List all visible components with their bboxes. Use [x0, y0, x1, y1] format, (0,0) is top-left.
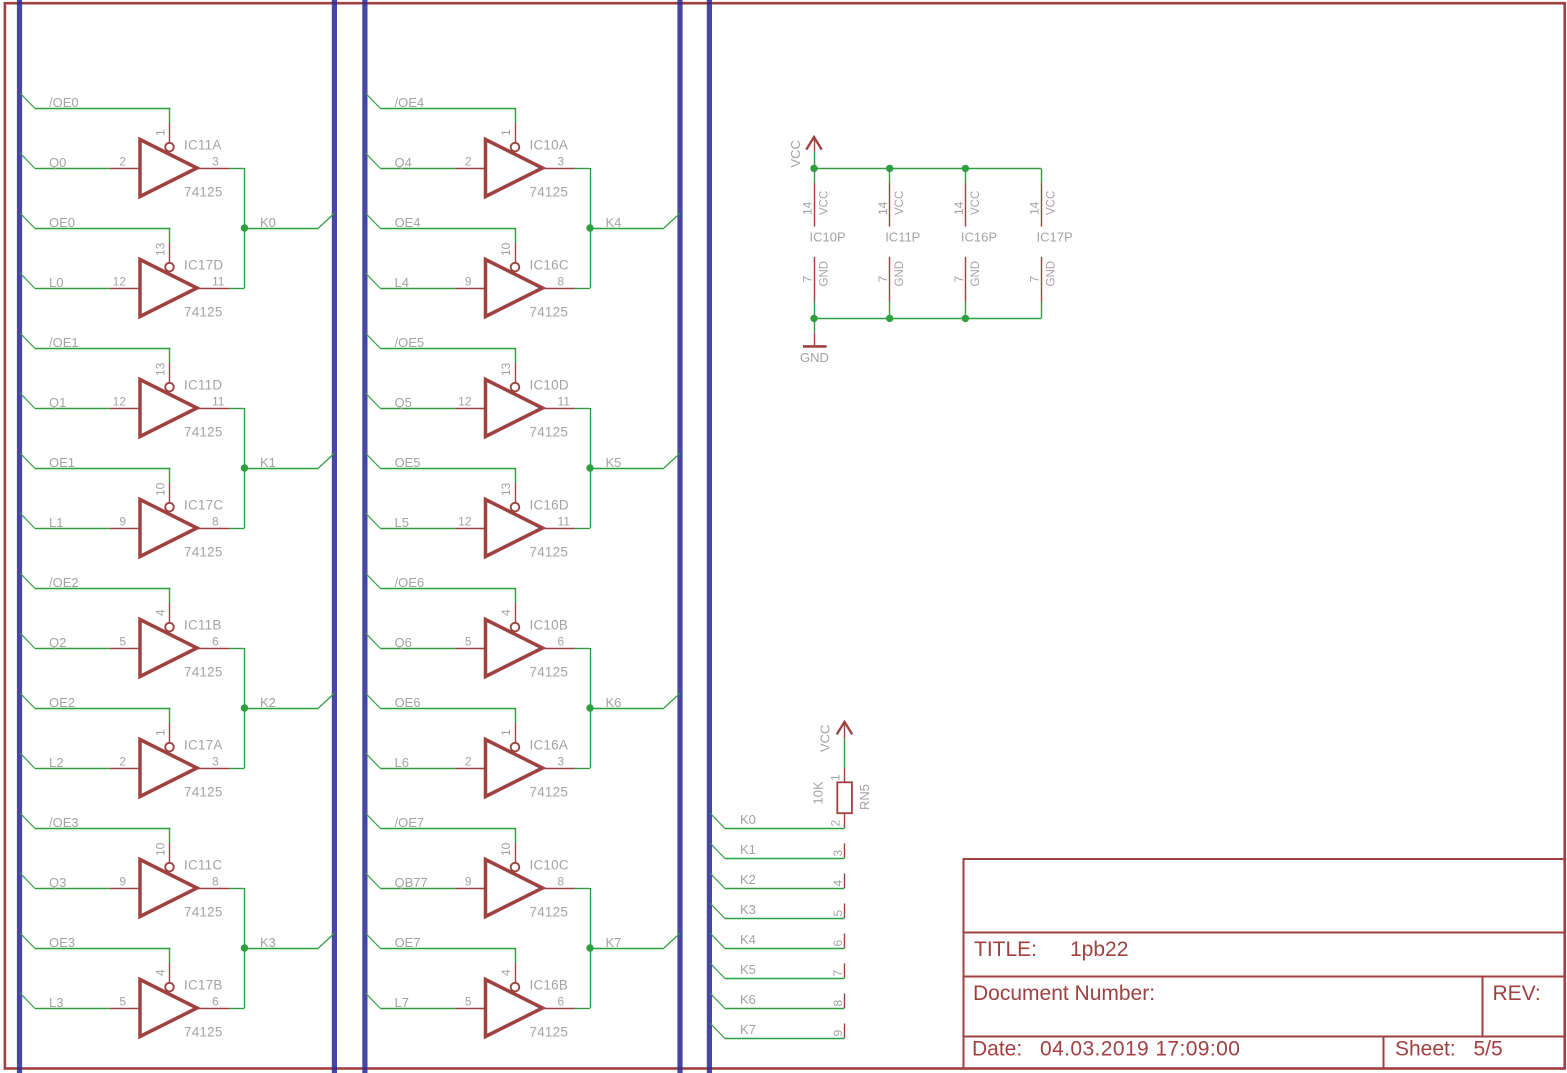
net label K7	[606, 935, 622, 950]
svg-text:7: 7	[1028, 276, 1042, 283]
junction K3	[241, 944, 248, 951]
name label IC16B	[530, 978, 569, 993]
svg-text:10: 10	[499, 242, 513, 256]
wire VCC rail	[814, 168, 1042, 183]
pin number 9 (input) of IC11C	[119, 875, 126, 889]
wire GND rail	[814, 302, 1042, 319]
svg-text:VCC: VCC	[970, 191, 982, 215]
wire net Q3 (input of IC11C)	[20, 873, 110, 889]
svg-text:5: 5	[119, 995, 126, 1009]
svg-text:2: 2	[829, 820, 843, 827]
pin number 8 (output) of IC17C	[212, 515, 219, 529]
net label OE5	[395, 455, 421, 470]
net label Q4	[395, 155, 412, 170]
svg-text:9: 9	[465, 275, 472, 289]
net label /OE7	[395, 815, 425, 830]
svg-text:IC17B: IC17B	[184, 978, 223, 993]
svg-text:K3: K3	[260, 935, 276, 950]
name label IC17A	[184, 738, 223, 753]
wire net /OE7 (enable of IC10C)	[365, 813, 516, 843]
pin number 7 (GND) of IC10P	[801, 276, 815, 283]
net label K2 (RN5 row)	[740, 872, 756, 887]
net label K6 (RN5 row)	[740, 992, 756, 1007]
net label L5	[395, 515, 409, 530]
svg-text:L6: L6	[395, 755, 409, 770]
buffer IC16C (74125 tri-state)	[455, 243, 574, 317]
svg-text:VCC: VCC	[1046, 191, 1058, 215]
wire net K0 (outputs join)	[229, 168, 335, 289]
svg-text:IC17C: IC17C	[184, 498, 223, 513]
svg-text:74125: 74125	[530, 905, 569, 920]
svg-text:6: 6	[212, 995, 219, 1009]
svg-text:9: 9	[119, 515, 126, 529]
svg-text:IC10A: IC10A	[530, 138, 569, 153]
pin number 12 (input) of IC16D	[458, 515, 472, 529]
value label 74125 of IC16A	[530, 785, 569, 800]
pin number 4 (enable) of IC10B	[499, 609, 513, 616]
net label Q3	[49, 875, 66, 890]
wire net L1 (input of IC17C)	[20, 513, 110, 529]
svg-text:6: 6	[831, 940, 845, 947]
bus line 4	[677, 0, 682, 1073]
pin number 5 (input) of IC16B	[465, 995, 472, 1009]
pin number 14 (VCC) of IC11P	[876, 201, 890, 215]
value label 74125 of IC11D	[184, 425, 223, 440]
net label L6	[395, 755, 409, 770]
svg-text:Sheet:: Sheet:	[1395, 1038, 1456, 1061]
pin number 2 (input) of IC10A	[465, 155, 472, 169]
value label 74125 of IC11C	[184, 905, 223, 920]
pin number 3 (output) of IC11A	[212, 155, 219, 169]
svg-text:K4: K4	[606, 215, 622, 230]
net label VCC (power rail)	[788, 140, 803, 167]
wire net OE5 (enable of IC16D)	[365, 453, 516, 483]
wire net OE7 (enable of IC16B)	[365, 933, 516, 963]
buffer IC17B (74125 tri-state)	[110, 963, 229, 1037]
name label IC16D	[530, 498, 569, 513]
svg-text:13: 13	[153, 242, 167, 256]
svg-text:IC10P: IC10P	[810, 229, 846, 244]
pin number 2 (input) of IC17A	[119, 755, 126, 769]
svg-text:L7: L7	[395, 995, 409, 1010]
net label GND	[800, 350, 829, 365]
wire net K3 (outputs join)	[229, 888, 335, 1009]
svg-text:K1: K1	[740, 842, 756, 857]
svg-text:/OE7: /OE7	[395, 815, 425, 830]
svg-text:4: 4	[499, 969, 513, 976]
svg-text:8: 8	[212, 515, 219, 529]
pin number 6 of RN5	[831, 940, 845, 947]
net label Q6	[395, 635, 412, 650]
pin number 13 (enable) of IC10D	[499, 362, 513, 376]
svg-text:74125: 74125	[184, 665, 223, 680]
pin number 3 (output) of IC16A	[558, 755, 565, 769]
wire net /OE0 (enable of IC11A)	[20, 93, 170, 123]
wire net OE3 (enable of IC17B)	[20, 933, 170, 963]
svg-text:Q0: Q0	[49, 155, 66, 170]
svg-text:IC16C: IC16C	[530, 258, 569, 273]
pin number 1 (enable) of IC17A	[153, 729, 167, 736]
svg-text:74125: 74125	[184, 785, 223, 800]
value label 74125 of IC17C	[184, 545, 223, 560]
svg-text:L1: L1	[49, 515, 63, 530]
wire net OE2 (enable of IC17A)	[20, 693, 170, 723]
svg-text:6: 6	[212, 635, 219, 649]
svg-text:3: 3	[558, 155, 565, 169]
wire net OE0 (enable of IC17D)	[20, 213, 170, 243]
wire net K0 (to RN5)	[710, 813, 845, 829]
svg-text:L5: L5	[395, 515, 409, 530]
net label /OE5	[395, 335, 425, 350]
svg-text:10K: 10K	[811, 781, 826, 804]
svg-text:Document Number:: Document Number:	[973, 982, 1155, 1005]
svg-text:14: 14	[1028, 201, 1042, 215]
buffer IC10B (74125 tri-state)	[455, 603, 574, 677]
net label K1 (RN5 row)	[740, 842, 756, 857]
pin number 8 (output) of IC11C	[212, 875, 219, 889]
name label IC17C	[184, 498, 223, 513]
pin number 5 of RN5	[831, 910, 845, 917]
buffer IC11B (74125 tri-state)	[110, 603, 229, 677]
pin stub 5 of RN5	[844, 904, 846, 919]
svg-text:74125: 74125	[530, 305, 569, 320]
value label 74125 of IC11A	[184, 185, 223, 200]
svg-text:Date:: Date:	[972, 1038, 1022, 1061]
net label K3	[260, 935, 276, 950]
value label 74125 of IC16C	[530, 305, 569, 320]
value label 74125 of IC17A	[184, 785, 223, 800]
pin number 5 (input) of IC10B	[465, 635, 472, 649]
value label 74125 of IC16B	[530, 1025, 569, 1040]
svg-text:14: 14	[952, 201, 966, 215]
svg-text:L4: L4	[395, 275, 409, 290]
svg-text:REV:: REV:	[1493, 982, 1541, 1005]
svg-text:1: 1	[829, 774, 843, 781]
pin stub 3 of RN5	[844, 844, 846, 859]
pin number 3 of RN5	[831, 850, 845, 857]
svg-text:10: 10	[153, 842, 167, 856]
pin number 6 (output) of IC17B	[212, 995, 219, 1009]
net label K4 (RN5 row)	[740, 932, 756, 947]
svg-text:5: 5	[465, 635, 472, 649]
name label IC11A	[184, 138, 222, 153]
junction K4	[586, 224, 593, 231]
svg-text:11: 11	[558, 395, 571, 409]
svg-text:74125: 74125	[184, 185, 223, 200]
pin number 12 (input) of IC10D	[458, 395, 472, 409]
wire net L7 (input of IC16B)	[365, 993, 455, 1009]
pin stub 8 of RN5	[844, 994, 846, 1009]
net label /OE1	[49, 335, 79, 350]
name label IC10C	[530, 858, 569, 873]
svg-text:2: 2	[119, 155, 126, 169]
svg-text:Q1: Q1	[49, 395, 66, 410]
wire net K5 (to RN5)	[710, 963, 845, 979]
svg-text:K6: K6	[740, 992, 756, 1007]
svg-text:2: 2	[465, 755, 472, 769]
pin name GND of IC10P	[819, 261, 831, 287]
svg-text:5/5: 5/5	[1474, 1038, 1503, 1061]
pin number 9 of RN5	[831, 1030, 845, 1037]
svg-text:Q3: Q3	[49, 875, 66, 890]
svg-text:GND: GND	[819, 261, 831, 287]
resistor network RN5	[837, 768, 852, 828]
name label IC17B	[184, 978, 223, 993]
pin number 13 (enable) of IC16D	[499, 482, 513, 496]
net label L2	[49, 755, 63, 770]
buffer IC11A (74125 tri-state)	[110, 123, 229, 197]
svg-text:IC10D: IC10D	[530, 378, 569, 393]
pin number 8 of RN5	[831, 1000, 845, 1007]
pin number 11 (output) of IC17D	[212, 275, 225, 289]
net label L3	[49, 995, 63, 1010]
pin name GND of IC11P	[894, 261, 906, 287]
net label K0 (RN5 row)	[740, 812, 756, 827]
svg-text:Q4: Q4	[395, 155, 412, 170]
pin number 12 (input) of IC11D	[113, 395, 127, 409]
svg-text:4: 4	[831, 880, 845, 887]
pin name VCC of IC10P	[819, 191, 831, 215]
buffer IC10D (74125 tri-state)	[455, 363, 574, 437]
svg-text:GND: GND	[1046, 261, 1058, 287]
svg-text:K3: K3	[740, 902, 756, 917]
svg-text:5: 5	[465, 995, 472, 1009]
svg-text:6: 6	[558, 635, 565, 649]
buffer IC17D (74125 tri-state)	[110, 243, 229, 317]
svg-text:04.03.2019 17:09:00: 04.03.2019 17:09:00	[1040, 1038, 1240, 1061]
net label L0	[49, 275, 63, 290]
buffer IC17A (74125 tri-state)	[110, 723, 229, 797]
pin number 1 (enable) of IC10A	[499, 129, 513, 136]
net label K7 (RN5 row)	[740, 1022, 756, 1037]
svg-text:14: 14	[801, 201, 815, 215]
value label 74125 of IC11B	[184, 665, 223, 680]
name label IC16A	[530, 738, 569, 753]
svg-text:K4: K4	[740, 932, 756, 947]
pin number 7 (GND) of IC11P	[876, 276, 890, 283]
pin number 6 (output) of IC11B	[212, 635, 219, 649]
net label VCC (RN5)	[818, 725, 833, 752]
name label IC10D	[530, 378, 569, 393]
junction K7	[586, 944, 593, 951]
wire net K6 (outputs join)	[575, 648, 681, 769]
junction VCC rail	[810, 165, 817, 172]
svg-text:4: 4	[499, 609, 513, 616]
pin number 13 (enable) of IC17D	[153, 242, 167, 256]
net label L4	[395, 275, 409, 290]
wire net K6 (to RN5)	[710, 993, 845, 1009]
svg-text:OE6: OE6	[395, 695, 421, 710]
net label Q1	[49, 395, 66, 410]
pin name GND of IC16P	[970, 261, 982, 287]
pin number 12 (input) of IC17D	[113, 275, 127, 289]
wire net K5 (outputs join)	[575, 408, 681, 529]
svg-text:4: 4	[153, 969, 167, 976]
net label Q0	[49, 155, 66, 170]
svg-text:K0: K0	[260, 215, 276, 230]
buffer IC10A (74125 tri-state)	[455, 123, 574, 197]
power gate IC16P	[965, 168, 967, 318]
svg-text:3: 3	[212, 755, 219, 769]
svg-text:74125: 74125	[530, 665, 569, 680]
svg-text:IC17D: IC17D	[184, 258, 223, 273]
net label K2	[260, 695, 276, 710]
svg-text:IC10C: IC10C	[530, 858, 569, 873]
value label 10K of RN5	[811, 781, 826, 804]
svg-text:8: 8	[558, 875, 565, 889]
net label /OE2	[49, 575, 79, 590]
svg-text:GND: GND	[970, 261, 982, 287]
svg-text:10: 10	[499, 842, 513, 856]
svg-text:5: 5	[831, 910, 845, 917]
svg-text:74125: 74125	[530, 185, 569, 200]
wire net QB77 (input of IC10C)	[365, 873, 455, 889]
svg-text:IC16B: IC16B	[530, 978, 569, 993]
name label IC17D	[184, 258, 223, 273]
buffer IC17C (74125 tri-state)	[110, 483, 229, 557]
svg-text:74125: 74125	[184, 305, 223, 320]
svg-text:13: 13	[153, 362, 167, 376]
buffer IC16A (74125 tri-state)	[455, 723, 574, 797]
wire net L6 (input of IC16A)	[365, 753, 455, 769]
net label K3 (RN5 row)	[740, 902, 756, 917]
junction GND rail	[962, 315, 969, 322]
pin number 4 (enable) of IC11B	[153, 609, 167, 616]
pin number 4 of RN5	[831, 880, 845, 887]
junction VCC rail	[962, 165, 969, 172]
svg-text:7: 7	[831, 970, 845, 977]
net label Q5	[395, 395, 412, 410]
power gate IC11P	[889, 168, 891, 318]
svg-text:K5: K5	[740, 962, 756, 977]
net label OE3	[49, 935, 75, 950]
pin number 10 (enable) of IC11C	[153, 842, 167, 856]
svg-text:7: 7	[876, 276, 890, 283]
wire net OE4 (enable of IC16C)	[365, 213, 516, 243]
svg-text:K7: K7	[740, 1022, 756, 1037]
svg-text:Q2: Q2	[49, 635, 66, 650]
power gate IC10P	[814, 168, 816, 318]
pin number 2 (input) of IC11A	[119, 155, 126, 169]
svg-text:9: 9	[465, 875, 472, 889]
svg-text:11: 11	[212, 275, 225, 289]
value label 74125 of IC17B	[184, 1025, 223, 1040]
svg-text:7: 7	[952, 276, 966, 283]
svg-text:K1: K1	[260, 455, 276, 470]
svg-text:IC16P: IC16P	[961, 229, 997, 244]
wire net K4 (to RN5)	[710, 933, 845, 949]
power gate IC17P	[1041, 183, 1043, 302]
svg-text:TITLE:: TITLE:	[974, 938, 1037, 961]
wire net Q1 (input of IC11D)	[20, 393, 110, 409]
pin number 7 (GND) of IC17P	[1028, 276, 1042, 283]
svg-text:OE5: OE5	[395, 455, 421, 470]
junction GND rail	[810, 315, 817, 322]
name label IC11C	[184, 858, 222, 873]
svg-text:/OE4: /OE4	[395, 95, 425, 110]
pin number 9 (input) of IC17C	[119, 515, 126, 529]
svg-text:IC11C: IC11C	[184, 858, 222, 873]
buffer IC16D (74125 tri-state)	[455, 483, 574, 557]
net label L7	[395, 995, 409, 1010]
svg-text:6: 6	[558, 995, 565, 1009]
svg-text:1: 1	[499, 129, 513, 136]
net label K5 (RN5 row)	[740, 962, 756, 977]
net label /OE4	[395, 95, 425, 110]
pin number 1 (enable) of IC16A	[499, 729, 513, 736]
name label IC10P	[810, 229, 846, 244]
pin number 2 (input) of IC16A	[465, 755, 472, 769]
svg-text:VCC: VCC	[894, 191, 906, 215]
bus line 2	[332, 0, 337, 1073]
buffer IC11D (74125 tri-state)	[110, 363, 229, 437]
svg-text:K5: K5	[606, 455, 622, 470]
svg-text:12: 12	[458, 515, 472, 529]
buffer IC16B (74125 tri-state)	[455, 963, 574, 1037]
svg-text:1pb22: 1pb22	[1070, 938, 1128, 961]
wire net /OE1 (enable of IC11D)	[20, 333, 170, 363]
net label QB77	[395, 875, 428, 890]
svg-text:Q6: Q6	[395, 635, 412, 650]
buffer IC10C (74125 tri-state)	[455, 843, 574, 917]
svg-text:K0: K0	[740, 812, 756, 827]
junction GND rail	[886, 315, 893, 322]
svg-text:/OE0: /OE0	[49, 95, 79, 110]
svg-text:VCC: VCC	[819, 191, 831, 215]
svg-text:L2: L2	[49, 755, 63, 770]
pin name VCC of IC11P	[894, 191, 906, 215]
svg-text:12: 12	[113, 395, 127, 409]
svg-text:8: 8	[212, 875, 219, 889]
wire net Q4 (input of IC10A)	[365, 153, 455, 169]
wire net K7 (outputs join)	[575, 888, 681, 1009]
pin number 3 (output) of IC17A	[212, 755, 219, 769]
junction K1	[241, 464, 248, 471]
net label OE6	[395, 695, 421, 710]
svg-text:74125: 74125	[530, 425, 569, 440]
name label RN5	[857, 784, 872, 810]
wire net K3 (to RN5)	[710, 903, 845, 919]
pin number 10 (enable) of IC17C	[153, 482, 167, 496]
svg-text:3: 3	[831, 850, 845, 857]
svg-text:IC17P: IC17P	[1037, 229, 1073, 244]
net label K6	[606, 695, 622, 710]
wire VCC to RN5 pin 1	[844, 739, 846, 768]
svg-text:IC11B: IC11B	[184, 618, 222, 633]
svg-text:IC17A: IC17A	[184, 738, 223, 753]
svg-text:1: 1	[153, 129, 167, 136]
pin number 14 (VCC) of IC16P	[952, 201, 966, 215]
svg-text:IC11A: IC11A	[184, 138, 222, 153]
pin number 7 (GND) of IC16P	[952, 276, 966, 283]
svg-text:K2: K2	[740, 872, 756, 887]
svg-text:/OE3: /OE3	[49, 815, 79, 830]
svg-text:IC11P: IC11P	[885, 229, 920, 244]
svg-text:11: 11	[212, 395, 225, 409]
svg-text:12: 12	[458, 395, 472, 409]
wire net /OE3 (enable of IC11C)	[20, 813, 170, 843]
wire net K2 (outputs join)	[229, 648, 335, 769]
svg-text:IC16A: IC16A	[530, 738, 569, 753]
svg-text:3: 3	[558, 755, 565, 769]
pin number 1 (enable) of IC11A	[153, 129, 167, 136]
name label IC10A	[530, 138, 569, 153]
pin number 14 (VCC) of IC10P	[801, 201, 815, 215]
pin number 4 (enable) of IC17B	[153, 969, 167, 976]
svg-text:12: 12	[113, 275, 127, 289]
svg-text:OE7: OE7	[395, 935, 421, 950]
value label 74125 of IC10B	[530, 665, 569, 680]
